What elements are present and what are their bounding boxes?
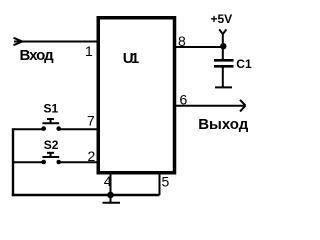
svg-text:2: 2 <box>88 148 96 164</box>
svg-text:5: 5 <box>162 174 170 190</box>
svg-text:S1: S1 <box>44 102 59 116</box>
svg-text:4: 4 <box>104 173 112 189</box>
svg-text:1: 1 <box>85 43 93 59</box>
svg-text:Выход: Выход <box>198 116 249 133</box>
svg-text:+5V: +5V <box>211 12 233 26</box>
svg-text:7: 7 <box>87 112 95 128</box>
svg-text:C1: C1 <box>236 57 252 71</box>
svg-text:S2: S2 <box>44 138 59 152</box>
svg-text:Вход: Вход <box>20 47 55 64</box>
